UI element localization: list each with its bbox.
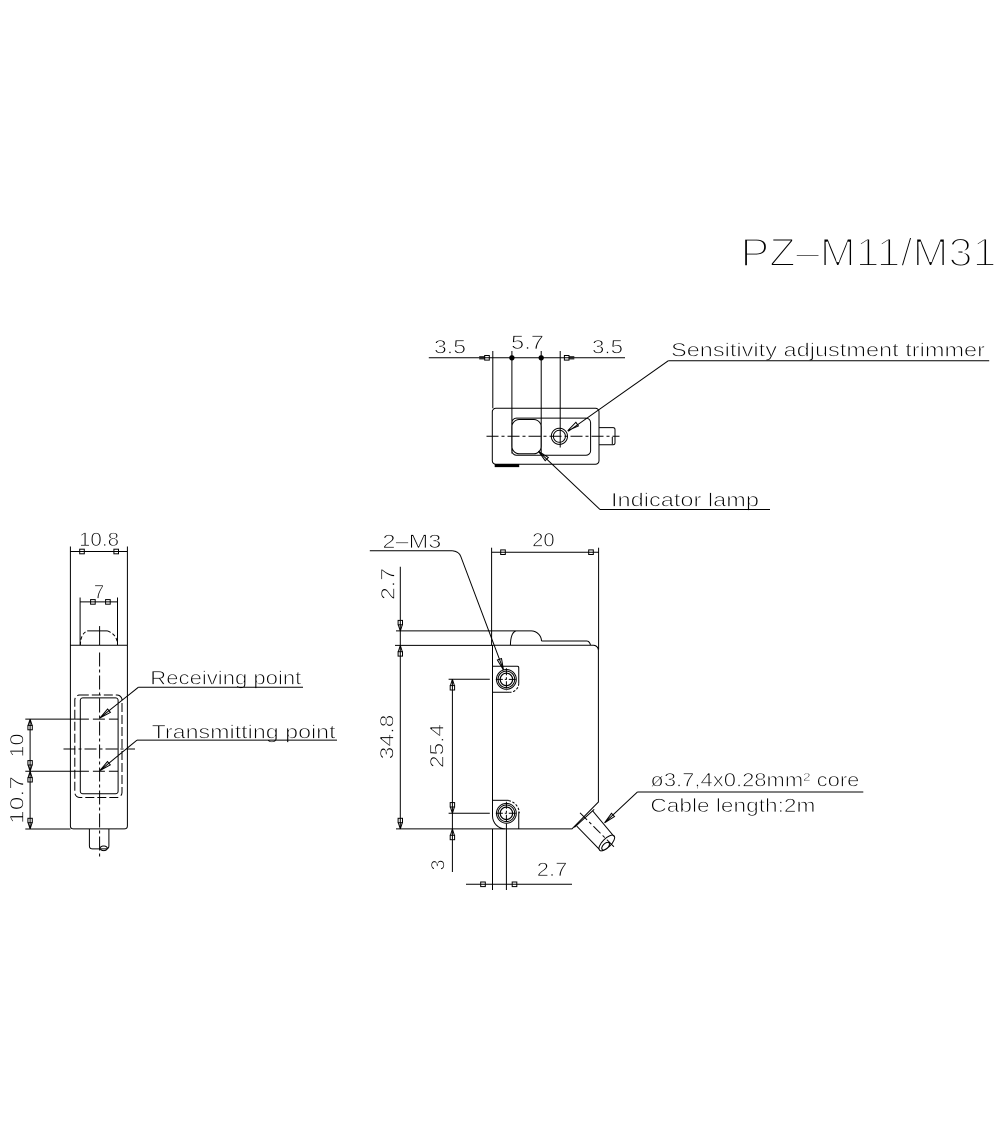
- ext line body top: [395, 644, 493, 646]
- extension line body left face: [492, 351, 494, 408]
- arrow 10.7 bottom: [28, 818, 32, 829]
- receiving ext line: [25, 718, 77, 720]
- 10.8 ext overshoot right: [126, 547, 128, 552]
- svg-text:25.4: 25.4: [428, 723, 449, 768]
- 7 ext line right / dome side: [117, 598, 119, 646]
- cable chamfer collar line: [574, 809, 594, 827]
- bottom hole horizontal center mark: [496, 812, 518, 814]
- cable leader: [605, 792, 638, 823]
- box arrow left 3.5: [485, 356, 490, 361]
- dome flat top: [87, 630, 107, 632]
- svg-text:Cable length:2m: Cable length:2m: [650, 796, 815, 817]
- front cable end ellipse: [100, 846, 107, 851]
- svg-text:3.5: 3.5: [434, 338, 466, 359]
- bottom hole mid: [498, 805, 515, 822]
- top boss corner arc dashed: [510, 683, 519, 692]
- 25.4 ext bottom: [449, 812, 490, 814]
- transmitting leader: [100, 740, 137, 770]
- svg-text:Indicator lamp: Indicator lamp: [611, 491, 759, 512]
- 7 box arrow left: [91, 600, 96, 605]
- receiving underline: [138, 686, 303, 688]
- top hole horizontal center mark: [496, 678, 518, 680]
- cable label underline: [637, 791, 863, 793]
- heavy lens mark: [495, 464, 520, 467]
- 2.7 bottom box arrow left: [481, 882, 486, 887]
- dim line 7: [80, 601, 117, 603]
- svg-text:2.7: 2.7: [537, 860, 568, 881]
- top bump right S: [532, 631, 542, 641]
- top hole outer: [497, 670, 517, 690]
- bottom boss right edge: [518, 812, 520, 829]
- 10.8 box arrow right: [114, 549, 119, 554]
- left face ext to bottom dim: [492, 829, 494, 890]
- top view body outline: [492, 408, 599, 464]
- svg-text:ø3.7,4x0.28mm² core: ø3.7,4x0.28mm² core: [650, 771, 859, 792]
- 7 ext line left / dome side: [79, 598, 81, 646]
- sensitivity leader arrowhead: [568, 422, 579, 430]
- transmitting arrowhead: [100, 762, 110, 771]
- arrow 25.4 bottom: [450, 803, 454, 814]
- arrow 2.7 top (down to 631.1): [398, 620, 402, 631]
- plateau step down: [587, 641, 590, 645]
- svg-text:3: 3: [429, 860, 450, 871]
- arrow 3 bottom (up to 829): [450, 829, 454, 840]
- 20 box arrow right: [589, 550, 594, 555]
- dot terminator 5.7 left: [510, 356, 514, 360]
- cable stub end line: [611, 437, 613, 444]
- transmitting underline: [137, 739, 337, 741]
- svg-text:10.8: 10.8: [79, 530, 119, 551]
- 10.8 box arrow left: [80, 549, 85, 554]
- svg-text:3.5: 3.5: [592, 338, 623, 359]
- trimmer inner circle: [553, 430, 565, 442]
- front horizontal centerline: [64, 748, 136, 750]
- receiving leader: [100, 687, 138, 718]
- svg-text:10.7: 10.7: [8, 776, 29, 824]
- arrow 34.8 top: [398, 645, 402, 656]
- top view plateau: [512, 418, 591, 455]
- transmitting dashed line: [77, 770, 118, 772]
- 2-M3 arrowhead: [497, 659, 503, 671]
- top hole inner: [500, 673, 512, 685]
- bottom hole outer: [497, 803, 517, 823]
- transmitting ext line: [25, 770, 77, 772]
- top view dimension line: [429, 357, 625, 359]
- cable side lower: [577, 826, 600, 849]
- indicator leader: [538, 451, 600, 509]
- arrow 10.7 top: [28, 771, 32, 782]
- receiving arrowhead: [100, 709, 110, 718]
- hole center ext to bottom dim: [505, 826, 507, 891]
- svg-text:2.7: 2.7: [379, 568, 400, 600]
- cable centerline: [580, 813, 616, 849]
- 2-M3 underline: [370, 550, 453, 552]
- top view horizontal centerline: [487, 435, 620, 437]
- 20 ext left: [491, 548, 493, 646]
- extension line lamp left: [511, 351, 513, 454]
- box arrow right 3.5: [564, 356, 569, 361]
- cable leader arrowhead: [605, 813, 615, 823]
- 20 box arrow left: [501, 550, 506, 555]
- junction line: [70, 644, 127, 646]
- arrow 10 top: [28, 719, 32, 730]
- bottom hole vertical center mark: [505, 802, 507, 826]
- ext line bump top: [396, 630, 532, 632]
- 25.4/3 dim vertical line: [451, 679, 453, 872]
- indicator label underline: [600, 509, 770, 511]
- front cable stub: [89, 829, 109, 849]
- left dim vertical line: [399, 567, 401, 829]
- svg-text:PZ–M11/M31: PZ–M11/M31: [741, 231, 997, 275]
- plateau line: [542, 640, 588, 642]
- side body outline: [493, 645, 599, 829]
- svg-text:5.7: 5.7: [511, 333, 544, 354]
- arrow 25.4 top: [450, 679, 454, 690]
- top hole vertical center mark: [505, 668, 507, 690]
- svg-text:20: 20: [532, 531, 555, 552]
- bottom boss corner arc dashed: [509, 801, 520, 814]
- cable stub (top view): [599, 428, 615, 445]
- extension line lamp right: [540, 351, 542, 454]
- arrow 34.8 bottom: [398, 818, 402, 829]
- svg-text:Sensitivity adjustment trimmer: Sensitivity adjustment trimmer: [671, 341, 986, 362]
- 7 box arrow right: [106, 600, 111, 605]
- cable core ellipse: [600, 841, 610, 851]
- top mounting boss: [493, 666, 519, 683]
- 20 ext right: [598, 548, 600, 650]
- 25.4 ext top: [449, 678, 490, 680]
- svg-text:10: 10: [8, 734, 29, 758]
- cable side upper: [592, 811, 614, 837]
- dome right arc dashed: [107, 631, 117, 645]
- trimmer outer circle: [551, 428, 567, 444]
- sensitivity label underline: [668, 360, 989, 362]
- top bump arc left: [510, 631, 516, 645]
- indicator leader arrowhead: [538, 451, 548, 461]
- top hole mid: [498, 671, 515, 688]
- window inner: [80, 698, 118, 794]
- arrow 10 bottom: [28, 761, 32, 772]
- dim line 10.8 / body top: [70, 551, 127, 553]
- bottom dim line 2.7: [466, 883, 572, 885]
- svg-text:Receiving point: Receiving point: [150, 669, 302, 690]
- 2-M3 leader: [452, 551, 503, 670]
- indicator lamp (top view): [512, 420, 541, 454]
- left dim line: [29, 719, 31, 829]
- dome left arc dashed: [80, 631, 87, 645]
- bottom hole inner: [500, 807, 512, 819]
- sensitivity leader: [568, 361, 668, 432]
- front vertical centerline: [99, 653, 101, 858]
- 2.7 bottom box arrow right: [512, 882, 517, 887]
- window outer dashed: [75, 695, 122, 798]
- front body outline: [70, 552, 127, 829]
- bottom mounting boss top edge: [493, 799, 509, 801]
- cable end ellipse: [597, 833, 618, 854]
- side bottom ext to left: [396, 828, 505, 830]
- bottom ext line: [25, 828, 70, 830]
- top boss bottom edge: [493, 691, 510, 693]
- extension line trimmer center: [559, 351, 561, 448]
- dome center tick: [99, 626, 101, 645]
- svg-text:34.8: 34.8: [378, 715, 399, 760]
- dim line 20: [492, 551, 599, 553]
- receiving dashed line: [77, 718, 118, 720]
- svg-text:2–M3: 2–M3: [382, 532, 441, 553]
- dot terminator 5.7 right: [539, 356, 543, 360]
- 10.8 ext overshoot left: [69, 547, 71, 552]
